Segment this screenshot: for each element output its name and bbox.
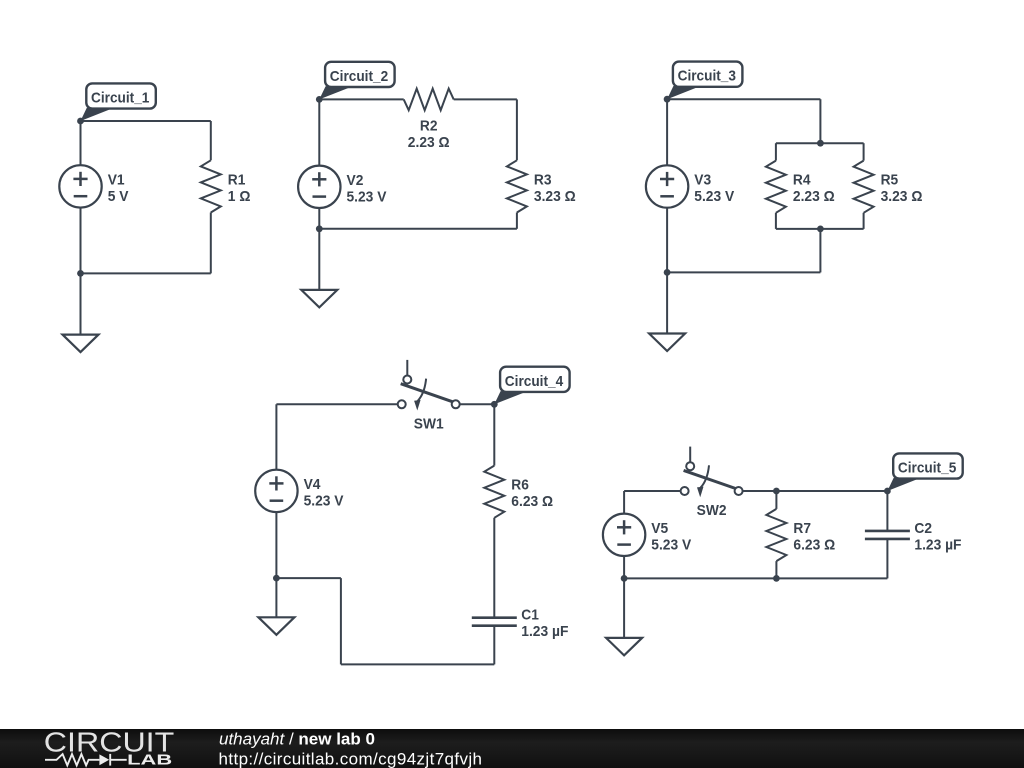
wire bottom rail circuit 1 xyxy=(81,272,211,274)
wire R1 top lead xyxy=(210,121,212,160)
wire parallel top bracket xyxy=(776,142,864,144)
wire R7 top lead xyxy=(775,491,777,509)
svg-text:V5: V5 xyxy=(651,520,668,537)
resistor R3 xyxy=(507,160,527,212)
svg-text:uthayaht / new lab 0: uthayaht / new lab 0 xyxy=(219,730,375,749)
wire R3 top lead xyxy=(516,99,518,160)
capacitor C2 xyxy=(865,531,910,539)
capacitor C1 xyxy=(472,618,517,626)
voltage source V1 xyxy=(59,165,101,207)
wire V2 to ground xyxy=(318,208,320,290)
wire V3 to ground xyxy=(666,208,668,334)
wire top rail to SW1 xyxy=(276,403,397,405)
svg-text:Circuit_5: Circuit_5 xyxy=(898,460,956,477)
wire R3 bottom lead xyxy=(516,213,518,229)
junction parallel top xyxy=(817,140,824,147)
node circuit 3 bottom xyxy=(664,269,671,276)
svg-text:Circuit_4: Circuit_4 xyxy=(505,373,564,390)
wire SW2 to C2 node xyxy=(743,490,888,492)
footer bar xyxy=(0,729,1024,768)
net flag Circuit_3 xyxy=(667,62,742,100)
wire SW1 to node xyxy=(460,403,495,405)
svg-text:R1: R1 xyxy=(228,171,246,188)
wire down to parallel pair xyxy=(819,99,821,143)
wire top rail circuit 1 xyxy=(81,120,211,122)
node circuit 4 xyxy=(491,401,498,408)
svg-text:3.23 Ω: 3.23 Ω xyxy=(881,188,923,205)
ground circuit 4 xyxy=(258,617,294,635)
svg-text:R6: R6 xyxy=(511,477,529,494)
wire bottom rail circuit 3 xyxy=(667,271,820,273)
junction R7 bottom xyxy=(773,575,780,582)
wire bottom rail circuit 4 xyxy=(341,663,494,665)
wire V4 bottom lead xyxy=(275,512,277,578)
logo resistor-diode symbol xyxy=(45,754,127,766)
wire R7 bottom lead xyxy=(775,561,777,578)
ground circuit 2 xyxy=(301,290,337,308)
node circuit 2 top xyxy=(316,96,323,103)
svg-text:V3: V3 xyxy=(694,172,711,189)
resistor R5 xyxy=(854,161,874,213)
ground circuit 5 xyxy=(606,638,642,656)
svg-text:R3: R3 xyxy=(534,171,552,188)
svg-text:SW2: SW2 xyxy=(697,502,727,519)
wire R5 bottom lead xyxy=(863,213,865,229)
ground circuit 3 xyxy=(649,334,685,352)
wire R6 top lead xyxy=(493,404,495,465)
wire R4 bottom lead xyxy=(775,213,777,229)
net flag Circuit_5 xyxy=(887,453,962,491)
junction V5 bottom xyxy=(621,575,628,582)
svg-text:2.23 Ω: 2.23 Ω xyxy=(408,134,450,151)
node circuit 1 bottom xyxy=(77,270,84,277)
net flag Circuit_4 xyxy=(494,367,569,405)
svg-text:SW1: SW1 xyxy=(414,416,444,433)
wire top rail circuit 3 xyxy=(667,98,820,100)
wire down from parallel pair xyxy=(819,229,821,273)
wire C1 bottom lead xyxy=(493,626,495,665)
switch SW1 xyxy=(398,360,460,411)
svg-text:C2: C2 xyxy=(914,520,932,537)
voltage source V4 xyxy=(255,470,297,512)
wire V4 top lead xyxy=(275,404,277,469)
wire V3 top lead xyxy=(666,99,668,165)
svg-text:5.23 V: 5.23 V xyxy=(347,188,387,205)
wire parallel bottom bracket xyxy=(776,228,864,230)
svg-text:5.23 V: 5.23 V xyxy=(694,188,734,205)
wire V5 bottom lead xyxy=(623,556,625,578)
wire V2 top lead xyxy=(318,99,320,165)
svg-text:2.23 Ω: 2.23 Ω xyxy=(793,188,835,205)
svg-text:5.23 V: 5.23 V xyxy=(304,492,344,509)
wire V5 top lead xyxy=(623,491,625,514)
wire to V4 bottom xyxy=(276,577,341,579)
wire top rail to SW2 xyxy=(624,490,681,492)
svg-text:5 V: 5 V xyxy=(108,188,129,205)
wire top rail right circuit 2 xyxy=(454,98,517,100)
wire to ground circuit 5 xyxy=(623,578,625,638)
svg-text:5.23 V: 5.23 V xyxy=(651,536,691,553)
svg-text:R5: R5 xyxy=(881,172,899,189)
svg-text:R2: R2 xyxy=(420,117,438,134)
svg-text:V2: V2 xyxy=(347,172,364,189)
svg-text:V1: V1 xyxy=(108,171,125,188)
net flag Circuit_1 xyxy=(81,83,156,121)
svg-text:R4: R4 xyxy=(793,172,811,189)
ground circuit 1 xyxy=(63,335,99,353)
svg-text:LAB: LAB xyxy=(127,753,172,768)
resistor R6 xyxy=(484,466,504,518)
node circuit 3 top xyxy=(664,96,671,103)
svg-text:http://circuitlab.com/cg94zjt7: http://circuitlab.com/cg94zjt7qfvjh xyxy=(219,749,483,768)
svg-text:Circuit_1: Circuit_1 xyxy=(91,90,149,107)
svg-text:6.23 Ω: 6.23 Ω xyxy=(793,537,835,554)
voltage source V2 xyxy=(298,166,340,208)
resistor R4 xyxy=(766,161,786,213)
svg-text:C1: C1 xyxy=(521,607,539,624)
switch SW2 xyxy=(681,447,743,498)
wire R6 to C1 xyxy=(493,518,495,618)
resistor R2 xyxy=(404,89,454,111)
wire bottom rail circuit 2 xyxy=(319,228,517,230)
svg-text:1.23 µF: 1.23 µF xyxy=(521,623,568,640)
wire V1 to ground xyxy=(80,208,82,335)
wire R4 top lead xyxy=(775,143,777,160)
resistor R7 xyxy=(766,509,786,561)
resistor R1 xyxy=(201,160,221,212)
svg-text:1 Ω: 1 Ω xyxy=(228,188,251,205)
wire top rail left circuit 2 xyxy=(319,98,403,100)
svg-text:3.23 Ω: 3.23 Ω xyxy=(534,188,576,205)
wire to ground circuit 4 xyxy=(275,578,277,617)
wire bottom riser circuit 4 xyxy=(340,578,342,664)
svg-text:1.23 µF: 1.23 µF xyxy=(914,536,961,553)
junction parallel bottom xyxy=(817,226,824,233)
node circuit 4 bottom xyxy=(273,575,280,582)
wire R5 top lead xyxy=(863,143,865,160)
svg-text:Circuit_2: Circuit_2 xyxy=(330,68,388,85)
voltage source V3 xyxy=(646,165,688,207)
wire C2 top lead xyxy=(886,491,888,531)
net flag Circuit_2 xyxy=(319,62,394,100)
svg-text:Circuit_3: Circuit_3 xyxy=(678,68,736,85)
svg-text:R7: R7 xyxy=(793,520,811,537)
node circuit 5 xyxy=(884,488,891,495)
svg-text:6.23 Ω: 6.23 Ω xyxy=(511,493,553,510)
wire bottom rail circuit 5 xyxy=(624,577,887,579)
node circuit 1 top xyxy=(77,118,84,125)
svg-text:V4: V4 xyxy=(304,476,321,493)
wire V1 top lead xyxy=(80,121,82,165)
wire R1 bottom lead xyxy=(210,213,212,274)
junction R7 top xyxy=(773,488,780,495)
voltage source V5 xyxy=(603,514,645,556)
wire C2 bottom lead xyxy=(886,539,888,579)
node circuit 2 bottom xyxy=(316,225,323,232)
